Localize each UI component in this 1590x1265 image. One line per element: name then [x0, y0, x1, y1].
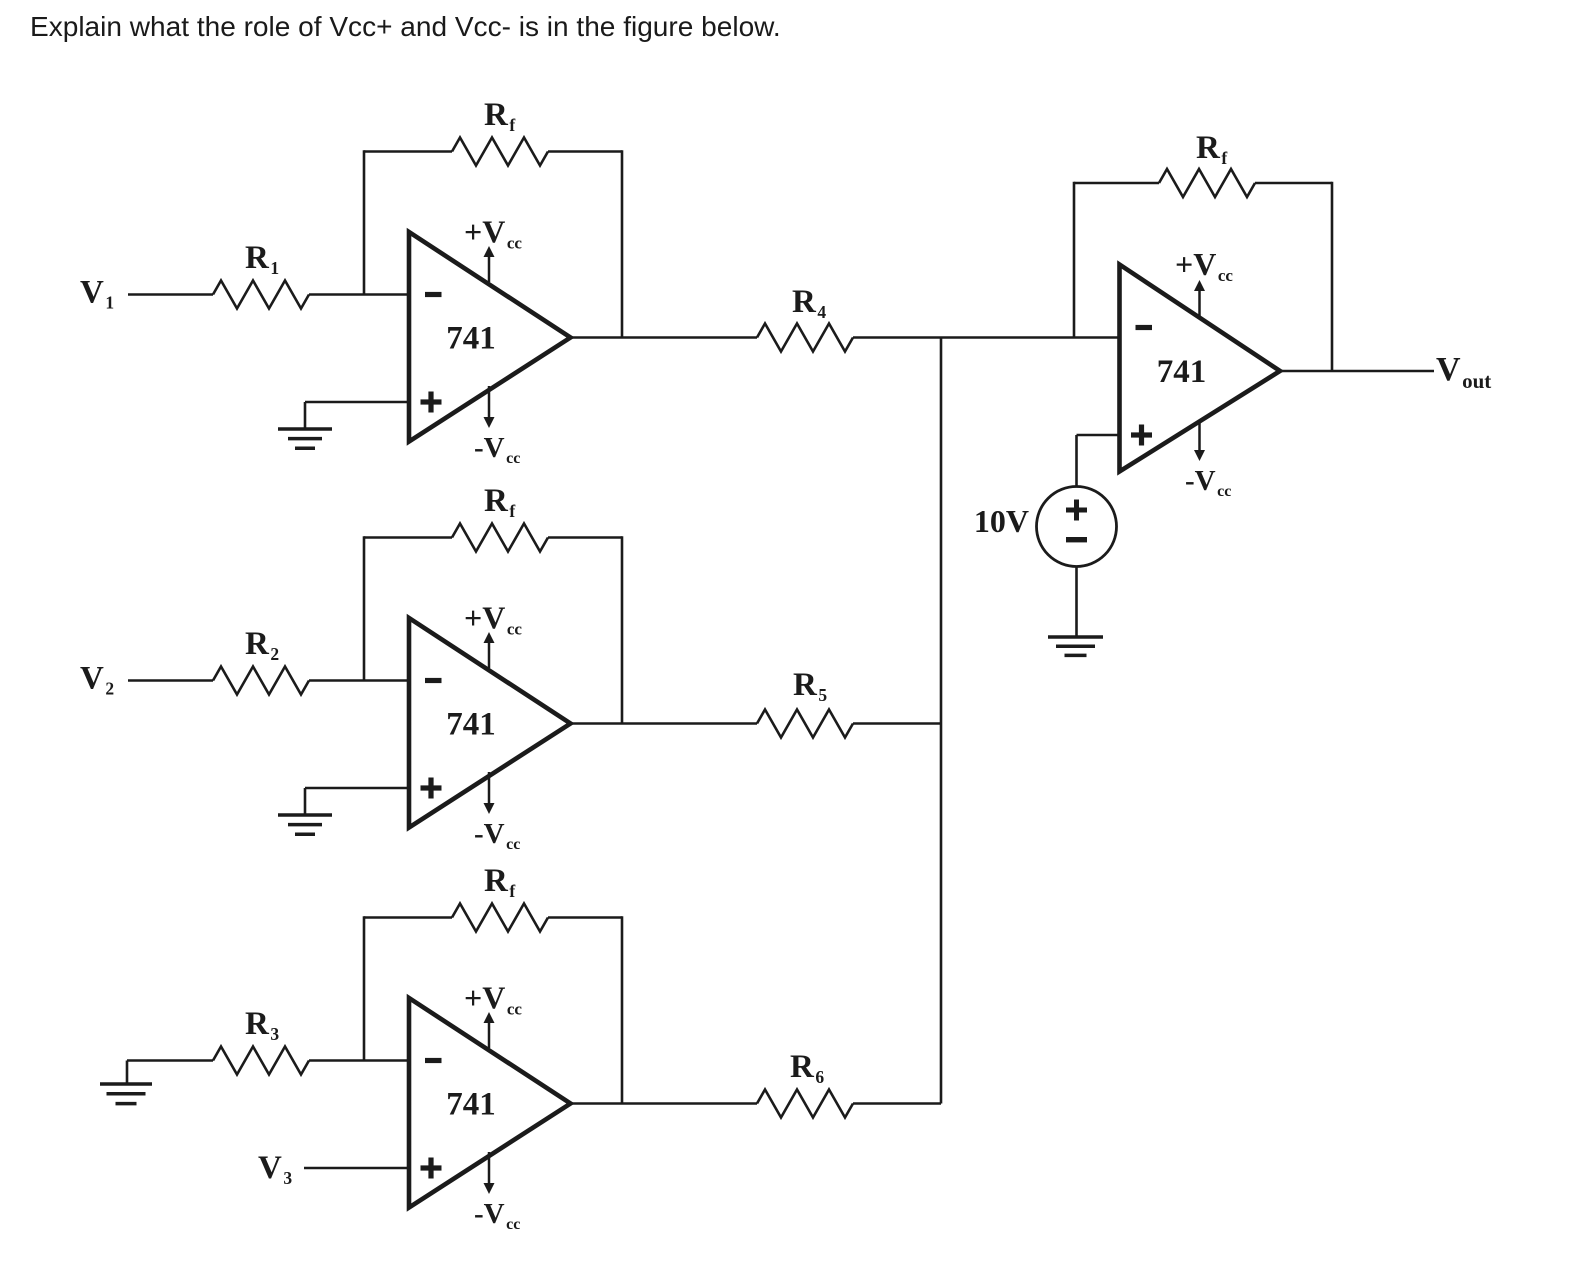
wire: V1 to R1: [128, 293, 213, 296]
ground (input of U3): [100, 1084, 152, 1104]
resistor R1: [213, 281, 309, 309]
wire: U2 output to R5: [571, 722, 758, 725]
ground (below 10V source): [1048, 637, 1103, 655]
resistor Rf (U2 feedback): [452, 524, 548, 552]
op-amp U2 inverting input pin (-): [425, 678, 442, 683]
wire: R5 to summing node: [853, 722, 941, 725]
wire: R2 to U2 inverting input: [309, 679, 409, 682]
wire: 10V source vertical to + input: [1075, 435, 1078, 487]
wire: R3 to U3 inverting input: [309, 1059, 409, 1062]
svg-text:741: 741: [1157, 354, 1207, 390]
wire: U4 feedback top left segment: [1074, 182, 1159, 185]
wire: R1 to U1 inverting input: [309, 293, 409, 296]
wire: summing node vertical bus: [940, 338, 943, 1104]
resistor R6: [757, 1090, 853, 1118]
op-amp U3 non-inverting input pin (+): [421, 1158, 442, 1179]
wire: U1 feedback left vertical: [363, 150, 366, 294]
svg-text:741: 741: [446, 1087, 496, 1123]
wire: U4 feedback right vertical: [1331, 182, 1334, 371]
op-amp U2 -Vcc supply arrow: [484, 772, 495, 814]
wire: ground to R3: [127, 1059, 213, 1062]
wire: U1 feedback top left segment: [364, 150, 452, 153]
wire: 10V source to U4 non-inverting input horizontal: [1077, 434, 1120, 437]
wire: V2 to R2: [128, 679, 213, 682]
wire: U3 feedback top right segment: [548, 916, 622, 919]
wire: U3 feedback top left segment: [364, 916, 452, 919]
svg-text:741: 741: [446, 707, 496, 743]
wire: U1 output to R4: [571, 336, 758, 339]
wire: non-inverting ground stub vertical: [304, 788, 307, 815]
wire: U4 feedback top right segment: [1255, 182, 1332, 185]
resistor R2: [213, 667, 309, 695]
wire: ground to U2 non-inverting input: [305, 787, 409, 790]
wire: ground to U1 non-inverting input: [305, 401, 409, 404]
wire: U2 feedback top left segment: [364, 536, 452, 539]
op-amp U3 inverting input pin (-): [425, 1058, 442, 1063]
resistor Rf (U4 feedback): [1159, 169, 1255, 197]
resistor Rf (U3 feedback): [452, 904, 548, 932]
op-amp U1 -Vcc supply arrow: [484, 386, 495, 428]
op-amp U4 non-inverting input pin (+): [1131, 425, 1152, 446]
wire: U2 feedback left vertical: [363, 536, 366, 680]
wire: U1 feedback right vertical: [621, 150, 624, 337]
op-amp U1 inverting input pin (-): [425, 292, 442, 297]
resistor R5: [757, 710, 853, 738]
svg-text:10V: 10V: [974, 503, 1029, 539]
op-amp U2 +Vcc supply arrow: [484, 632, 495, 668]
wire: U2 feedback top right segment: [548, 536, 622, 539]
wire: U4 output to Vout: [1280, 370, 1434, 373]
svg-text:741: 741: [446, 321, 496, 357]
op-amp U1 (741) triangle: [409, 232, 571, 442]
op-amp U2 non-inverting input pin (+): [421, 778, 442, 799]
op-amp U4 -Vcc supply arrow: [1194, 423, 1205, 461]
op-amp U4 (741) triangle: [1120, 265, 1281, 472]
op-amp U2 (741) triangle: [409, 618, 571, 828]
resistor R4: [757, 324, 853, 352]
ground (non-inverting input of U1): [278, 429, 332, 448]
wire: R4 to U4 inverting input: [853, 336, 1120, 339]
wire: U4 feedback left vertical: [1073, 182, 1076, 338]
wire: non-inverting ground stub vertical: [304, 402, 307, 429]
op-amp U1 +Vcc supply arrow: [484, 246, 495, 282]
op-amp U4 +Vcc supply arrow: [1194, 280, 1205, 316]
op-amp U3 -Vcc supply arrow: [484, 1152, 495, 1194]
resistor Rf (U1 feedback): [452, 138, 548, 166]
voltage source 10V (circle symbol): [1037, 487, 1117, 567]
wire: R6 to summing node: [853, 1102, 941, 1105]
wire: U3 feedback left vertical: [363, 916, 366, 1060]
wire: 10V source to ground vertical: [1075, 567, 1078, 638]
op-amp U3 +Vcc supply arrow: [484, 1012, 495, 1048]
wire: input ground stub vertical: [126, 1061, 129, 1085]
op-amp U1 non-inverting input pin (+): [421, 392, 442, 413]
wire: U1 feedback top right segment: [548, 150, 622, 153]
wire: U3 output to R6: [571, 1102, 758, 1105]
resistor R3: [213, 1047, 309, 1075]
svg-text:Explain what the role of Vcc+: Explain what the role of Vcc+ and Vcc- i…: [30, 11, 781, 42]
wire: U2 feedback right vertical: [621, 536, 624, 723]
wire: U3 feedback right vertical: [621, 916, 624, 1103]
ground (non-inverting input of U2): [278, 815, 332, 834]
wire: V3 to U3 non-inverting input: [304, 1167, 409, 1170]
op-amp U3 (741) triangle: [409, 998, 571, 1208]
op-amp U4 inverting input pin (-): [1136, 325, 1153, 330]
